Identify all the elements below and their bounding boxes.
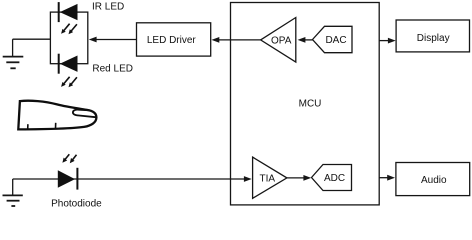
photodiode D3 (58, 168, 78, 190)
DAC block (313, 26, 353, 52)
LED D2 emission arrows (61, 77, 77, 88)
MCU box (231, 3, 380, 205)
wire MCU to Audio (379, 177, 389, 179)
photodiode incident light arrows (62, 154, 76, 163)
finger crease tick 1 (27, 124, 29, 129)
arrowhead into Display (388, 38, 396, 44)
svg-text:IR LED: IR LED (92, 2, 124, 13)
svg-text:Photodiode: Photodiode (51, 199, 102, 210)
Display box (396, 20, 469, 52)
wire OPA to LED Driver (219, 39, 261, 41)
arrowhead into Audio (387, 175, 395, 181)
wire ground to LED loop (13, 38, 51, 40)
svg-text:TIA: TIA (260, 173, 276, 184)
amplifier TIA (253, 157, 287, 198)
ground bottom-left (3, 179, 23, 206)
svg-text:ADC: ADC (324, 173, 345, 184)
svg-text:Red LED: Red LED (92, 64, 133, 75)
wire LED Driver to LED loop (96, 39, 137, 41)
op-amp OPA (261, 18, 296, 63)
wire TIA to ADC (287, 177, 305, 179)
wire photodiode to TIA (13, 178, 245, 180)
arrowhead into OPA (298, 37, 306, 43)
svg-text:OPA: OPA (271, 35, 292, 46)
svg-text:Audio: Audio (421, 175, 447, 186)
svg-text:DAC: DAC (325, 35, 346, 46)
Audio box (396, 163, 470, 196)
arrowhead into LED Driver (212, 37, 220, 43)
arrowhead into LED loop (89, 37, 97, 43)
wire MCU to Display (379, 40, 389, 42)
wire DAC to OPA (305, 39, 313, 41)
ADC block (312, 165, 352, 191)
finger outline (18, 101, 96, 130)
LED D1 emission arrows (61, 24, 77, 35)
svg-text:Display: Display (417, 33, 450, 44)
arrowhead into TIA (244, 176, 252, 182)
svg-text:MCU: MCU (299, 99, 322, 110)
ground top-left (3, 39, 24, 68)
finger crease tick 2 (55, 123, 57, 129)
svg-text:LED Driver: LED Driver (147, 35, 197, 46)
fingernail (73, 110, 96, 118)
arrowhead into ADC (303, 175, 311, 181)
LED D1 IR (59, 2, 78, 22)
LED Driver box (137, 23, 211, 56)
LED D2 Red (59, 54, 78, 74)
LED pair loop (50, 12, 87, 64)
